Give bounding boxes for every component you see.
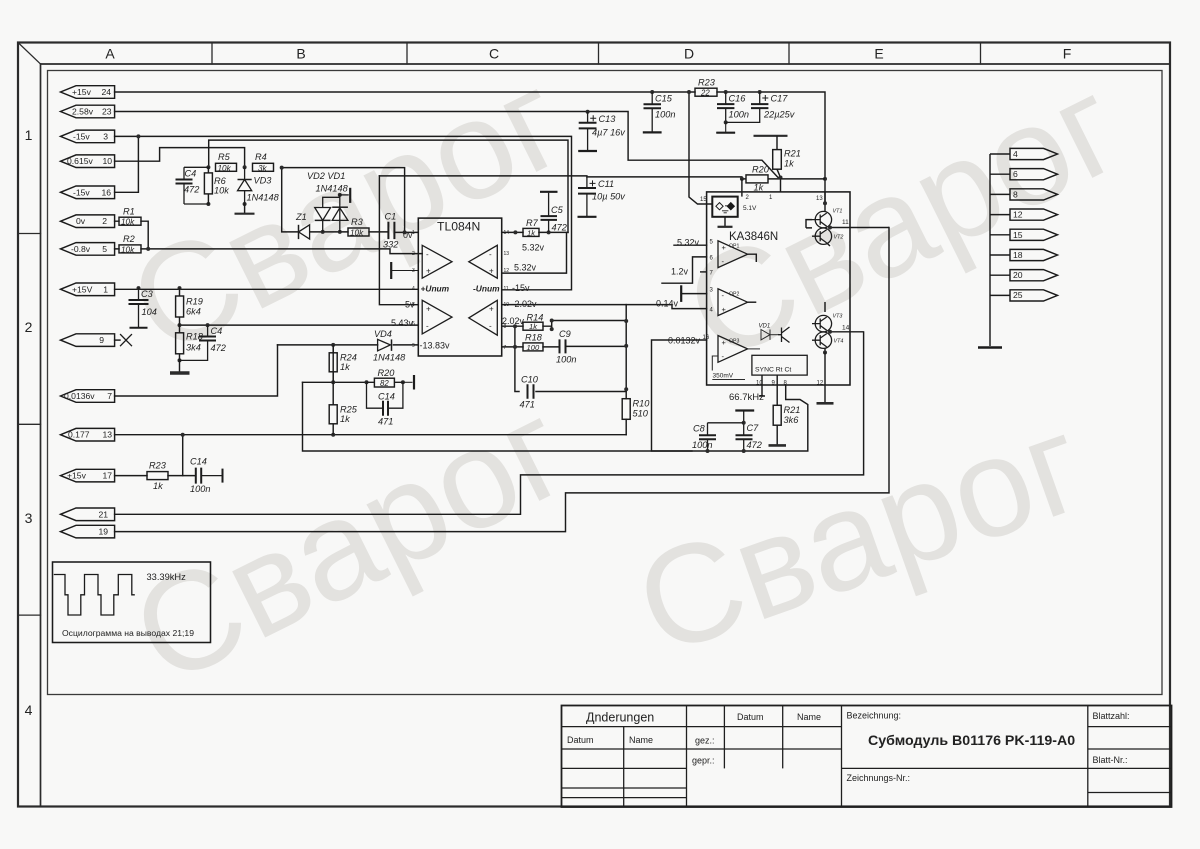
resistor R23 22 xyxy=(695,78,717,98)
output flag pin 12 xyxy=(1010,209,1058,220)
capacitor C16 100n xyxy=(716,92,749,133)
diode Z1 xyxy=(295,212,310,239)
resistor R5 10k xyxy=(216,152,237,173)
svg-text:-: - xyxy=(489,322,492,331)
svg-text:5: 5 xyxy=(102,244,107,254)
resistor R21 1k xyxy=(773,136,801,178)
svg-text:Zeichnungs-Nr.:: Zeichnungs-Nr.: xyxy=(847,773,911,783)
svg-text:16: 16 xyxy=(703,335,710,341)
op-amp U1.2 (mirrored) xyxy=(469,245,498,278)
svg-text:C4: C4 xyxy=(211,326,223,336)
svg-text:15: 15 xyxy=(1013,230,1023,240)
svg-text:100n: 100n xyxy=(655,110,675,120)
svg-text:3k: 3k xyxy=(258,164,268,173)
svg-text:-Unum: -Unum xyxy=(473,284,500,294)
svg-text:23: 23 xyxy=(102,107,112,117)
svg-text:Datum: Datum xyxy=(737,712,764,722)
output bus vertical wire xyxy=(989,154,991,346)
capacitor C14 471 xyxy=(367,382,403,426)
resistor R6 10k xyxy=(204,167,229,204)
wire OP2 output xyxy=(748,301,757,303)
connector flag pin 17 (+15v) xyxy=(61,469,115,482)
svg-text:10k: 10k xyxy=(218,164,232,173)
terminal bar above R21 1k xyxy=(754,135,788,137)
wire +15V1 net to TL pin4 xyxy=(115,288,419,290)
diodes VD2 VD1 pair xyxy=(307,171,350,232)
wire 0v2 net xyxy=(115,221,149,249)
resistor R20 1k xyxy=(742,165,781,193)
capacitor C17 22u25v electrolytic xyxy=(726,92,796,122)
inner drawing frame xyxy=(48,71,1163,695)
svg-text:5.32v: 5.32v xyxy=(522,243,545,253)
svg-text:VD2 VD1: VD2 VD1 xyxy=(307,171,345,181)
svg-text:+15v: +15v xyxy=(72,87,92,97)
svg-text:R20: R20 xyxy=(752,165,770,175)
wire Z1 to R3 to C1 row xyxy=(310,231,387,233)
output flag pin 18 xyxy=(1010,249,1058,260)
svg-text:471: 471 xyxy=(520,400,535,410)
KA pin12 ground xyxy=(824,385,826,403)
oscillogram box xyxy=(53,562,211,643)
capacitor C13 4u7 16v electrolytic xyxy=(578,110,626,151)
top column band line xyxy=(41,63,1169,65)
svg-text:5.32v: 5.32v xyxy=(514,262,537,272)
svg-text:-: - xyxy=(489,250,492,259)
connector flag pin 9 xyxy=(61,334,115,347)
svg-text:3: 3 xyxy=(103,131,108,141)
svg-text:OP2: OP2 xyxy=(729,292,739,298)
svg-text:+: + xyxy=(722,243,727,252)
svg-text:D: D xyxy=(684,46,694,62)
op-amp U2 OP2 xyxy=(718,289,748,316)
svg-text:11: 11 xyxy=(842,219,849,226)
wire C11 rail y177 xyxy=(379,176,742,177)
resistor R10 510 xyxy=(622,399,650,420)
svg-text:-15v: -15v xyxy=(512,283,530,293)
svg-text:C3: C3 xyxy=(141,289,154,299)
output flag pin 4 xyxy=(1010,148,1058,159)
svg-text:100n: 100n xyxy=(190,484,210,494)
svg-text:+: + xyxy=(426,267,431,276)
wire riser R23-C14 junction to 0.177 line xyxy=(182,435,184,476)
capacitor C11 10u 50v electrolytic xyxy=(578,177,627,217)
terminal bar right of R20-82 xyxy=(403,375,414,390)
op-amp U1.4 (mirrored) xyxy=(469,300,498,335)
svg-text:22µ25v: 22µ25v xyxy=(763,110,796,120)
TL084 pin numbers xyxy=(412,230,509,351)
wire R18-100 row to C9 xyxy=(502,345,626,348)
svg-text:100: 100 xyxy=(527,343,540,352)
svg-text:1k: 1k xyxy=(153,481,163,491)
wire 2.02v pin10 net to OP2 xyxy=(502,305,707,309)
svg-text:Осцилограмма на выводах 21;19: Осцилограмма на выводах 21;19 xyxy=(62,628,194,638)
svg-text:12: 12 xyxy=(817,380,824,386)
svg-text:R10: R10 xyxy=(633,399,651,409)
wire C1 to TL pin1 xyxy=(396,231,419,233)
svg-text:Datum: Datum xyxy=(567,735,594,745)
wire 1.2v bracket to OP1 pin6 xyxy=(662,257,707,283)
capacitor C1 332 xyxy=(383,212,398,250)
svg-text:82: 82 xyxy=(380,379,389,388)
diode VD3 1N4148 xyxy=(238,167,280,204)
svg-text:VT4: VT4 xyxy=(834,339,844,345)
connector flag pin 16 (-15v) xyxy=(61,186,115,199)
wire 21 net long route xyxy=(115,332,864,514)
wire OP1 output xyxy=(748,254,757,262)
resistor R3 10k xyxy=(348,217,369,238)
output flag pin 25 xyxy=(1010,290,1058,301)
row divider 2-3 xyxy=(18,423,41,425)
connector flag pin 5 (-0.8v) xyxy=(61,243,115,256)
svg-text:R20: R20 xyxy=(378,368,396,378)
svg-text:F: F xyxy=(1063,46,1072,62)
svg-text:2.58v: 2.58v xyxy=(72,107,94,117)
svg-text:22: 22 xyxy=(700,88,710,97)
svg-text:7: 7 xyxy=(504,345,507,351)
junction dot C10 right xyxy=(624,387,628,391)
ground below R18 xyxy=(179,360,181,371)
svg-text:VT1: VT1 xyxy=(833,209,843,215)
wire 5.32v to OP1 pin5 xyxy=(674,244,707,246)
svg-text:1: 1 xyxy=(103,284,108,294)
svg-text:19: 19 xyxy=(98,527,108,537)
output bus stubs xyxy=(990,154,1010,295)
junction dots R18 row xyxy=(513,344,628,349)
svg-text:R4: R4 xyxy=(255,152,267,162)
svg-text:+: + xyxy=(722,305,727,314)
svg-text:R3: R3 xyxy=(351,217,364,227)
svg-text:1k: 1k xyxy=(529,322,538,331)
svg-text:SYNC Rt Ct: SYNC Rt Ct xyxy=(755,367,791,374)
svg-text:Blattzahl:: Blattzahl: xyxy=(1093,711,1130,721)
transistor VT3 xyxy=(812,314,842,332)
svg-text:0.0136v: 0.0136v xyxy=(64,391,95,401)
wire -15v16 joining riser xyxy=(115,136,139,192)
svg-text:5.43v: 5.43v xyxy=(391,318,414,328)
resistor R14 1k xyxy=(523,313,543,331)
wire +15v17 net xyxy=(115,475,194,477)
svg-text:0.177: 0.177 xyxy=(68,430,90,440)
diode VD1 internal xyxy=(748,324,778,349)
wire VT1-VT2 link and output 11 xyxy=(823,226,889,247)
svg-text:4: 4 xyxy=(412,286,415,292)
wire 9 stub with X xyxy=(115,339,120,341)
svg-text:C15: C15 xyxy=(655,94,673,104)
row divider 3-4 xyxy=(18,614,41,616)
optocoupler / reference box xyxy=(712,197,737,217)
svg-text:R5: R5 xyxy=(218,152,231,162)
connector flag pin 19 xyxy=(61,525,115,538)
wire VT3-VT4 output 14 xyxy=(823,302,864,385)
svg-text:2: 2 xyxy=(412,251,415,257)
wire R5 rail top xyxy=(209,140,568,232)
op-amp U2 OP3 xyxy=(718,336,748,363)
svg-text:R1: R1 xyxy=(123,207,135,217)
svg-text:-15v: -15v xyxy=(73,131,90,141)
svg-text:510: 510 xyxy=(633,409,649,419)
svg-text:104: 104 xyxy=(142,307,157,317)
resistor R20 82 xyxy=(367,368,403,388)
junction dots R20 R21 xyxy=(740,176,827,181)
svg-text:10k: 10k xyxy=(121,245,135,254)
OP2 pin numbers 3 4 xyxy=(710,288,714,314)
svg-text:TL084N: TL084N xyxy=(437,220,480,234)
resistor R25 1k xyxy=(329,382,358,434)
svg-text:3k6: 3k6 xyxy=(784,415,800,425)
svg-text:+15V: +15V xyxy=(72,284,93,294)
svg-text:12: 12 xyxy=(1013,210,1023,220)
wire vertical link R14-C10 xyxy=(515,326,626,391)
column divider C-D xyxy=(598,43,600,65)
corner bevel diagonal xyxy=(18,43,41,65)
svg-text:0v: 0v xyxy=(76,216,86,226)
diode VD4 1N4148 xyxy=(373,329,406,363)
svg-text:100n: 100n xyxy=(556,355,576,365)
svg-text:R19: R19 xyxy=(186,297,203,307)
svg-text:C17: C17 xyxy=(771,94,789,104)
svg-text:C14: C14 xyxy=(378,392,395,402)
terminal bar OP2 pin3 xyxy=(680,286,682,300)
svg-text:gez.:: gez.: xyxy=(695,736,715,746)
svg-text:R21: R21 xyxy=(784,149,801,159)
svg-text:17: 17 xyxy=(102,471,112,481)
svg-text:4: 4 xyxy=(25,702,33,718)
connector flag pin 1 (+15V) xyxy=(61,283,115,296)
svg-text:5.32v: 5.32v xyxy=(677,238,700,248)
junction dots left area xyxy=(136,134,140,138)
ground below R21-3k6 xyxy=(776,425,778,445)
svg-text:+: + xyxy=(426,305,431,314)
wire SYNC pin10 stub xyxy=(759,375,765,396)
IC U2 KA3846N block xyxy=(707,192,850,385)
svg-text:1.2v: 1.2v xyxy=(671,267,689,277)
wire R21 junction to +15 riser xyxy=(781,178,826,180)
svg-text:8: 8 xyxy=(1013,189,1018,199)
wire SYNC pin9 to R21-3k6 xyxy=(776,375,778,405)
svg-text:1: 1 xyxy=(412,230,415,236)
output flag pin 8 xyxy=(1010,189,1058,200)
svg-text:13: 13 xyxy=(816,196,823,202)
resistor R21 3k6 xyxy=(773,405,800,425)
wire +15v24 riser to opto pin15 xyxy=(689,92,712,204)
resistor R18 3k4 xyxy=(176,325,204,360)
connector flag pin 2 (0v) xyxy=(61,215,115,228)
svg-text:2: 2 xyxy=(102,216,107,226)
wire +15v24 net top rail xyxy=(115,92,825,203)
svg-text:Субмодуль B01176 PK-119-A0: Субмодуль B01176 PK-119-A0 xyxy=(868,733,1075,749)
svg-text:6: 6 xyxy=(1013,169,1018,179)
capacitor C4 472 (second) xyxy=(180,325,226,360)
wire 0.615v10 net xyxy=(115,148,245,168)
svg-text:3: 3 xyxy=(412,268,415,274)
svg-text:2: 2 xyxy=(746,195,750,201)
svg-text:472: 472 xyxy=(747,440,762,450)
column divider E-F xyxy=(980,43,982,65)
connector flag pin 7 (0.0136v) xyxy=(61,390,115,403)
svg-text:16: 16 xyxy=(101,187,111,197)
svg-text:332: 332 xyxy=(383,240,398,250)
svg-text:3k4: 3k4 xyxy=(186,343,201,353)
svg-text:66.7kHz: 66.7kHz xyxy=(729,392,764,403)
svg-text:7: 7 xyxy=(107,391,112,401)
svg-text:21: 21 xyxy=(98,509,108,519)
svg-text:24: 24 xyxy=(101,87,111,97)
junction dots top rail xyxy=(687,90,762,94)
svg-text:C5: C5 xyxy=(551,205,564,215)
svg-text:VD4: VD4 xyxy=(374,329,392,339)
wire R4 to C1 top route xyxy=(282,168,405,233)
svg-text:Name: Name xyxy=(629,735,653,745)
svg-text:R7: R7 xyxy=(526,218,539,228)
connector flag pin 13 (0.177) xyxy=(61,428,115,441)
svg-text:10µ 50v: 10µ 50v xyxy=(592,192,626,202)
capacitor C4 472 (left) xyxy=(176,167,209,204)
svg-text:1N4148: 1N4148 xyxy=(247,193,280,203)
svg-text:350mV: 350mV xyxy=(713,373,734,380)
svg-text:10k: 10k xyxy=(121,218,135,227)
capacitor C10 471 xyxy=(520,375,539,410)
svg-text:13: 13 xyxy=(504,251,510,257)
ground below opto box xyxy=(724,217,726,227)
title block table xyxy=(562,706,1172,808)
ground below VD3 xyxy=(244,204,246,214)
svg-text:R24: R24 xyxy=(340,353,357,363)
svg-text:+15v: +15v xyxy=(67,471,87,481)
capacitor C3 104 xyxy=(129,288,157,328)
svg-text:B: B xyxy=(296,46,305,62)
svg-text:18: 18 xyxy=(1013,250,1023,260)
svg-text:OP1: OP1 xyxy=(729,244,739,250)
column divider A-B xyxy=(211,43,213,65)
svg-text:A: A xyxy=(105,46,115,62)
horizontal row lines xyxy=(562,726,842,728)
wire -15v3 net xyxy=(115,136,572,289)
wire -0.8v5 net to op-amp xyxy=(115,249,423,254)
svg-text:100n: 100n xyxy=(692,440,712,450)
svg-text:R23: R23 xyxy=(698,78,716,88)
svg-text:Сварог: Сварог xyxy=(618,383,1103,684)
svg-text:C7: C7 xyxy=(747,423,760,433)
svg-text:2.02v: 2.02v xyxy=(515,299,538,309)
capacitor C9 100n xyxy=(556,329,576,365)
svg-text:14: 14 xyxy=(842,325,850,332)
svg-text:12: 12 xyxy=(504,268,510,274)
Anderungen section verticals xyxy=(623,727,625,807)
svg-text:Дnderungen: Дnderungen xyxy=(586,711,654,725)
svg-text:5: 5 xyxy=(412,302,415,308)
connector flag pin 21 xyxy=(61,508,115,521)
capacitor C7 472 xyxy=(735,411,762,454)
svg-text:gepr.:: gepr.: xyxy=(692,756,715,766)
svg-text:Name: Name xyxy=(797,712,821,722)
svg-text:C16: C16 xyxy=(729,94,747,104)
column divider D-E xyxy=(788,43,790,65)
wire 2.58v23 net to C13 and R20 xyxy=(115,112,778,178)
svg-text:+Unum: +Unum xyxy=(421,284,450,294)
svg-text:R21: R21 xyxy=(784,405,801,415)
svg-text:+: + xyxy=(722,338,727,347)
output flag pin 15 xyxy=(1010,229,1058,240)
svg-text:E: E xyxy=(874,46,883,62)
OP1 pin numbers 5 6 7 xyxy=(710,240,714,277)
column divider B-C xyxy=(406,43,408,65)
svg-text:R25: R25 xyxy=(340,405,358,415)
transistor VT4 xyxy=(812,332,843,348)
svg-text:1k: 1k xyxy=(340,414,350,424)
svg-text:C8: C8 xyxy=(693,424,706,434)
svg-text:C4: C4 xyxy=(185,169,197,179)
svg-text:472: 472 xyxy=(184,185,199,195)
svg-text:10k: 10k xyxy=(214,186,229,196)
output bus ground xyxy=(978,346,1002,348)
resistor R7 1k xyxy=(523,218,539,237)
svg-text:-: - xyxy=(426,322,429,331)
wire 5.43v net from R19-R18 node xyxy=(180,324,419,326)
svg-text:C14: C14 xyxy=(190,457,207,467)
svg-text:4µ7 16v: 4µ7 16v xyxy=(592,127,626,137)
svg-text:10k: 10k xyxy=(350,228,364,237)
wire 5v net vertical xyxy=(379,176,418,305)
resistor R18 100 xyxy=(523,333,543,352)
SYNC RI CI box xyxy=(752,355,807,375)
wire vertical x626 R10 column xyxy=(625,305,627,435)
svg-text:C9: C9 xyxy=(559,329,571,339)
svg-text:11: 11 xyxy=(504,286,509,292)
wire R14 row xyxy=(502,321,626,330)
svg-text:5.1V: 5.1V xyxy=(743,205,757,212)
svg-text:C1: C1 xyxy=(385,212,397,222)
svg-text:VD3: VD3 xyxy=(254,176,273,186)
svg-text:1N4148: 1N4148 xyxy=(373,353,406,363)
resistor R4 3k xyxy=(253,152,274,173)
output flag pin 6 xyxy=(1010,169,1058,180)
output flag pin 20 xyxy=(1010,270,1058,281)
svg-text:6: 6 xyxy=(412,321,415,327)
IC U1 TL084N block xyxy=(418,218,501,356)
svg-text:1N4148: 1N4148 xyxy=(316,184,349,194)
capacitor C8 100n xyxy=(692,423,744,453)
svg-text:1: 1 xyxy=(25,127,33,143)
wire 0.177-13 net xyxy=(115,434,627,436)
svg-text:Bezeichnung:: Bezeichnung: xyxy=(847,711,902,721)
svg-text:C11: C11 xyxy=(598,179,614,189)
capacitor C5 472 xyxy=(540,192,567,233)
transistor VT1 xyxy=(812,209,842,228)
svg-text:-0.8v: -0.8v xyxy=(71,244,91,254)
svg-text:VT2: VT2 xyxy=(834,235,844,241)
transistor internal (driver) xyxy=(778,327,790,343)
svg-text:14: 14 xyxy=(504,230,510,236)
resistor R19 6k4 xyxy=(176,288,203,325)
wire R24 node to R20-82 loop xyxy=(303,381,367,383)
svg-text:20: 20 xyxy=(1013,270,1023,280)
capacitor C14 100n (left) xyxy=(190,457,223,495)
svg-text:0.0132v: 0.0132v xyxy=(668,336,701,346)
svg-text:4: 4 xyxy=(1013,149,1018,159)
svg-text:15: 15 xyxy=(700,197,707,203)
resistor R1 10k xyxy=(119,207,141,227)
svg-text:6k4: 6k4 xyxy=(186,307,201,317)
svg-text:VD1: VD1 xyxy=(759,324,771,330)
svg-text:1k: 1k xyxy=(527,228,536,237)
svg-text:R2: R2 xyxy=(123,234,135,244)
oscillogram waveform xyxy=(54,575,135,616)
transistor VT2 xyxy=(812,228,843,244)
svg-text:2: 2 xyxy=(25,319,33,335)
svg-text:9: 9 xyxy=(99,335,104,345)
SYNC pin numbers 10 9 8 12 xyxy=(756,380,824,386)
svg-text:Z1: Z1 xyxy=(295,212,307,222)
